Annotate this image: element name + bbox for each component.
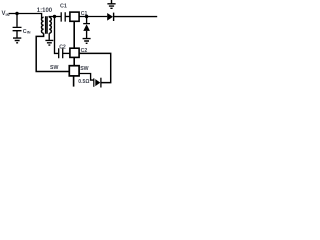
ground (transformer secondary) — [45, 40, 53, 45]
wire C2 to box C2 — [63, 52, 70, 54]
svg-text:SW: SW — [80, 66, 88, 72]
svg-text:SW: SW — [50, 65, 58, 71]
ground (D1) — [83, 39, 91, 44]
transformer T1 secondary winding — [49, 17, 51, 33]
label VIN — [2, 11, 10, 17]
wire C2 branch from node — [55, 17, 59, 54]
wire secondary bottom to ground — [48, 33, 50, 40]
box C2 — [70, 48, 79, 57]
label C2 (box) — [81, 48, 88, 54]
transformer T1 primary winding — [42, 17, 44, 33]
svg-text:VIN: VIN — [2, 11, 10, 17]
diode D3 (bottom, anode bar + triangle + cathode bar) — [93, 78, 95, 86]
wire box C2 to box SW — [73, 57, 75, 65]
box SW — [69, 66, 79, 76]
wire primary bottom to SW loop — [36, 33, 69, 71]
node A junction — [85, 15, 88, 18]
node VIN junction — [15, 12, 18, 15]
svg-text:CIN: CIN — [23, 29, 31, 35]
capacitor CIN — [13, 27, 22, 30]
wire CIN stem — [16, 14, 18, 27]
wire output rail — [114, 16, 158, 18]
label 0.5Ω — [78, 79, 89, 85]
capacitor C1 — [61, 12, 65, 21]
ground (floating, top right) — [107, 0, 115, 8]
label SW (box) — [80, 66, 88, 72]
wire secondary top — [49, 16, 61, 19]
svg-text:C1: C1 — [60, 4, 67, 10]
box C1 — [70, 12, 79, 21]
svg-text:0.5Ω: 0.5Ω — [78, 79, 89, 85]
diode D1 shunt (cathode bar + up triangle) — [83, 23, 90, 25]
wire VIN rail to primary top — [9, 14, 42, 19]
wire box C2 right loop — [79, 53, 111, 82]
label C1 — [60, 4, 67, 10]
wire D1 anode to ground — [86, 31, 88, 38]
svg-text:1:100: 1:100 — [37, 8, 53, 14]
label SW (left wire) — [50, 65, 58, 71]
ground (CIN) — [13, 38, 21, 43]
wire box C1 right to diodes — [79, 16, 107, 18]
node secondary top junction — [53, 15, 56, 18]
capacitor C2 — [59, 48, 63, 58]
wire box SW bottom stub — [73, 76, 75, 87]
wire box SW right to D3 — [79, 74, 94, 81]
diode D1 shunt stem — [86, 17, 88, 24]
label CIN — [23, 29, 31, 35]
wire box C1 to box C2 — [73, 21, 75, 48]
label C1 (box) — [81, 11, 88, 17]
label 1:100 — [37, 8, 53, 14]
label C2 — [59, 45, 66, 51]
transformer T1 core — [46, 16, 48, 34]
wire CIN to ground — [16, 31, 18, 38]
diode D2 series (output) — [107, 13, 113, 21]
wire C1 to box C1 — [65, 16, 69, 18]
